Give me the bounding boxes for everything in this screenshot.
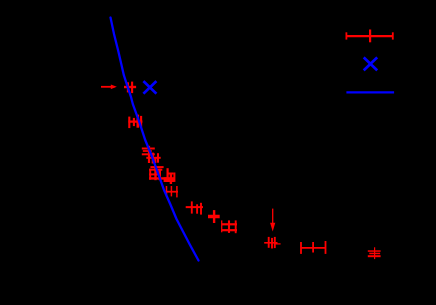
cluster G: x-error point below arrow — [264, 237, 280, 249]
blue model curve — [111, 18, 199, 261]
blue X marker (data) — [143, 81, 156, 94]
cluster C: overlapping error bars with solid blob — [149, 166, 174, 184]
arrow (downward upper-limit arrow, red) — [270, 209, 275, 232]
arrow (horizontal upper-limit arrow, red) — [101, 85, 117, 90]
legend X sample (blue) — [364, 57, 378, 70]
legend errorbar sample (red) — [346, 30, 393, 43]
cluster E: x-error bar with three ticks — [186, 201, 203, 214]
cluster D: x-error bar with three ticks — [166, 186, 178, 197]
cluster B: stacked x-error bars — [142, 146, 161, 164]
cluster I: y-error bar with caps — [368, 247, 381, 259]
data point P1 with x-error bar — [124, 82, 136, 94]
legend line sample (blue) — [346, 91, 394, 93]
cluster F: double x-error bars sharing caps — [221, 220, 237, 233]
cluster H: wide x-error bar — [301, 241, 326, 254]
cluster A: two overlapping x-error points — [128, 115, 142, 129]
lone plus marker — [208, 210, 220, 223]
